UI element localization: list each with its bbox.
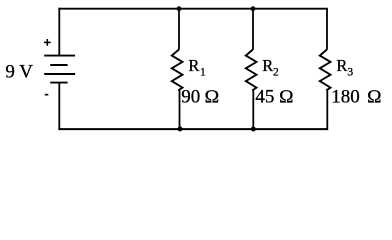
battery plus sign <box>44 39 51 46</box>
wire top horizontal <box>58 8 327 10</box>
wire right edge bottom segment <box>326 90 328 130</box>
battery B1 plate 2 short <box>50 64 67 66</box>
node dot bottom R1 <box>178 127 183 132</box>
svg-text:Ω: Ω <box>204 88 219 108</box>
resistor R1 branch: top lead <box>178 9 180 50</box>
node dot top R2 <box>251 6 256 11</box>
svg-text:R: R <box>336 56 347 75</box>
resistor R1 zigzag <box>172 49 183 90</box>
svg-text:1: 1 <box>200 67 206 79</box>
svg-text:Ω: Ω <box>279 88 294 108</box>
resistor R2 zigzag <box>246 49 257 90</box>
wire bottom horizontal <box>58 128 327 130</box>
svg-text:R: R <box>188 56 199 75</box>
node dot bottom R2 <box>251 127 256 132</box>
battery B1 bottom lead <box>58 83 60 131</box>
svg-text:2: 2 <box>273 67 279 79</box>
resistor R2 branch: top lead <box>252 9 254 50</box>
resistor R1 bottom lead <box>179 90 181 129</box>
battery B1 plate 4 short <box>50 82 67 84</box>
svg-text:90: 90 <box>181 87 200 108</box>
svg-text:Ω: Ω <box>367 88 382 108</box>
battery B1 top lead <box>58 8 60 56</box>
svg-text:R: R <box>262 56 273 75</box>
svg-text:9 V: 9 V <box>5 61 33 82</box>
resistor R3 zigzag <box>320 49 331 90</box>
battery minus sign <box>45 94 49 96</box>
svg-text:3: 3 <box>347 67 353 79</box>
resistor R2 bottom lead <box>252 90 254 129</box>
svg-text:45: 45 <box>255 87 274 108</box>
node dot top R1 <box>177 6 182 11</box>
battery B1 plate 1 long <box>44 55 75 57</box>
svg-text:180: 180 <box>331 87 360 108</box>
battery B1 plate 3 long <box>44 73 75 75</box>
wire right edge top segment <box>326 8 328 50</box>
